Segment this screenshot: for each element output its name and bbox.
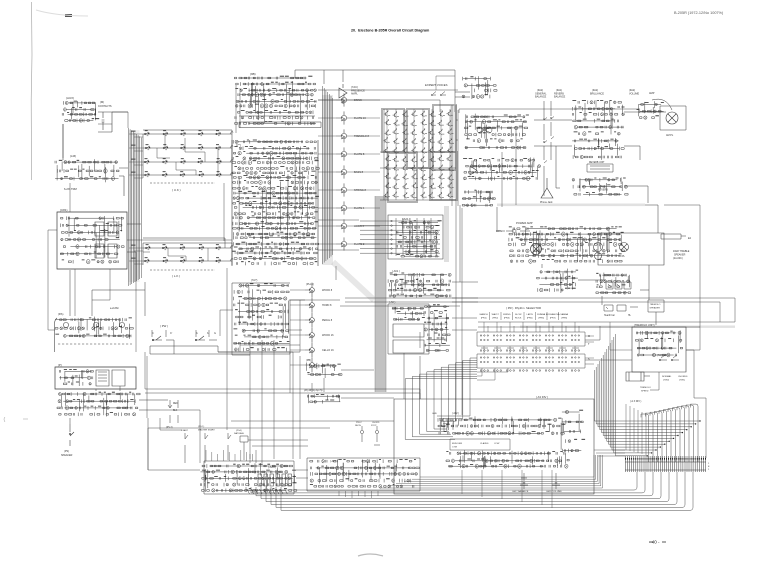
- svg-text:REVERB: REVERB: [598, 189, 608, 192]
- svg-text:(TW2): (TW2): [663, 380, 669, 382]
- drops below A2 cluster: [339, 491, 378, 498]
- svg-text:SWING: SWING: [503, 314, 511, 316]
- svg-text:( A01 ): ( A01 ): [392, 269, 400, 273]
- preamp triangle: [470, 166, 477, 175]
- pedal keyer block (A6): [234, 284, 290, 352]
- svg-text:WALTZ: WALTZ: [492, 313, 500, 316]
- svg-text:(LM): (LM): [70, 154, 76, 158]
- reverb recovery block (9A1): [572, 177, 628, 196]
- power transistor circle 2: [594, 243, 603, 260]
- rhythm generator (A24): [200, 463, 296, 492]
- lower keyboard zigzag wires: [143, 248, 208, 261]
- svg-text:B-205R (1972-12/No 1007%): B-205R (1972-12/No 1007%): [674, 11, 724, 15]
- svg-text:CYM: CYM: [452, 447, 457, 449]
- reverb unit box: [587, 164, 613, 172]
- wire left bundle down: [63, 124, 70, 212]
- shaded bus from keyer matrix down to A01: [375, 196, 386, 392]
- lower keyboard contact rows (L.K): [143, 245, 233, 263]
- A0 block box: [388, 304, 429, 354]
- main speaker: [666, 112, 678, 124]
- 9B left verticals: [236, 85, 240, 133]
- svg-text:(PB): (PB): [306, 359, 311, 362]
- wires top right to selector area: [664, 205, 700, 322]
- svg-text:AMP: AMP: [649, 92, 655, 95]
- balance pots chain: [543, 101, 554, 196]
- A21 matrix cells: [396, 220, 439, 258]
- cascade lower left exits: [380, 455, 603, 488]
- main treble speaker box: [598, 233, 664, 265]
- chord selector stop switch: [374, 426, 380, 445]
- wires PSU: [70, 386, 168, 424]
- svg-text:NORMAL: NORMAL: [662, 375, 672, 378]
- shaded diagonal bus link: [333, 262, 374, 300]
- svg-text:(PS 1): (PS 1): [198, 426, 204, 428]
- long wires left bottom web: [145, 352, 420, 459]
- svg-text:BRILLIANCE: BRILLIANCE: [590, 93, 604, 96]
- svg-text:NEON: NEON: [355, 425, 361, 427]
- keyboard row left tag labels: [131, 131, 136, 259]
- svg-text:CLAVES: CLAVES: [480, 442, 489, 445]
- keyer matrix gray outline 4: [388, 153, 417, 202]
- capacitor C101: [102, 112, 105, 130]
- svg-text:PEDAL 8: PEDAL 8: [322, 319, 333, 322]
- console section border lower left: [147, 356, 394, 470]
- dashed line under U.K rows: [150, 182, 215, 184]
- A0 dense right part: [424, 306, 450, 352]
- svg-text:(PS4): (PS4): [236, 430, 242, 432]
- svg-text:(7A?): (7A?): [251, 278, 257, 282]
- rhythm unit row 1 (A02): [438, 416, 564, 435]
- svg-text:(P): (P): [58, 363, 62, 367]
- wire keyer matrix to 9A block: [456, 120, 458, 140]
- drops from rhythm rows to bus: [462, 470, 552, 508]
- svg-text:G: G: [214, 332, 216, 335]
- svg-text:( L.K ): ( L.K ): [172, 274, 180, 278]
- vertical wires below 9A: [452, 105, 516, 207]
- wire 9B to 9A: [318, 90, 458, 112]
- svg-text:20. Electone B-205R Overall C: 20. Electone B-205R Overall Circuit Diag…: [351, 29, 430, 33]
- center bus bundle: [323, 86, 333, 264]
- svg-text:(9B): (9B): [250, 72, 256, 76]
- svg-text:AM PL: AM PL: [666, 134, 674, 137]
- keyer column connecting wires: [318, 100, 380, 244]
- keyer matrix gray outline 1: [382, 109, 404, 152]
- svg-text:(7*): (7*): [236, 143, 241, 147]
- staple mark top left: [65, 14, 72, 17]
- svg-text:NATURAL: NATURAL: [234, 432, 245, 435]
- staircase bundle selector to A3 DIV box: [405, 358, 477, 439]
- wire top aux long run: [112, 112, 128, 128]
- A24 resistor array: [258, 474, 291, 486]
- svg-text:SPEAKER: SPEAKER: [61, 454, 73, 457]
- svg-text:MASTER START: MASTER START: [198, 429, 215, 432]
- top border wire: [295, 70, 470, 112]
- svg-text:MARCH: MARCH: [480, 313, 488, 316]
- PH-C feed wires from A6: [290, 290, 305, 365]
- svg-text:ROCK: ROCK: [515, 318, 522, 320]
- long horizontal wires mid page: [290, 298, 478, 306]
- selector bank 2: [477, 354, 585, 371]
- tremolo switches (TW): [659, 355, 679, 361]
- svg-text:HORN 8: HORN 8: [322, 304, 332, 307]
- A21 matrix box: [388, 215, 443, 259]
- keyer matrix gray outline 5: [430, 152, 457, 200]
- svg-text:BALANCE: BALANCE: [535, 96, 547, 99]
- cascade lower horizontal feeders: [594, 450, 625, 456]
- svg-text:(M): (M): [100, 100, 104, 104]
- wire tremolo unit left side: [610, 322, 632, 350]
- svg-text:AMPL: AMPL: [351, 93, 358, 96]
- vibrato switches (PW): [152, 336, 217, 341]
- svg-text:(PR8): (PR8): [561, 318, 567, 320]
- small block right: [462, 190, 495, 206]
- wires above banks from left: [452, 298, 735, 322]
- wires right column down from tremolo: [650, 350, 706, 458]
- block below 9A: [464, 157, 541, 181]
- wires A6 down to bottom row: [250, 340, 274, 463]
- drops into A24 from switches: [206, 450, 252, 461]
- svg-text:VOLUME: VOLUME: [629, 93, 640, 96]
- small parts left of cascade: [561, 410, 583, 460]
- balance pot GM: [520, 473, 528, 489]
- upper keyboard bus wires: [143, 130, 232, 179]
- svg-text:PW-C: PW-C: [356, 422, 362, 424]
- svg-text:SPEED: SPEED: [641, 391, 649, 393]
- svg-text:a-2n/8kr: a-2n/8kr: [110, 307, 119, 310]
- wires 9A outputs: [534, 120, 648, 203]
- svg-text:( A2? ): ( A2? ): [330, 459, 338, 463]
- svg-text:GM-? BALANCE: GM-? BALANCE: [512, 490, 529, 493]
- long wire keyboard rows to voicing block: [224, 150, 232, 241]
- wire from LK down to PA: [70, 270, 145, 316]
- wires power amp: [497, 205, 658, 280]
- svg-text:COW: COW: [494, 443, 500, 445]
- upper keyboard zigzag inter-row wires: [157, 134, 218, 175]
- svg-text:CHORD: CHORD: [372, 422, 380, 424]
- wire amp to speaker: [624, 99, 672, 112]
- page fold mark lower left: [4, 417, 28, 422]
- tone control block (9A2): [573, 101, 625, 136]
- svg-text:SAMBA: SAMBA: [560, 313, 568, 316]
- svg-text:( A21 ): ( A21 ): [402, 217, 410, 221]
- power amp input parts: [506, 229, 526, 233]
- wire LM to bus: [119, 168, 128, 196]
- page fold line left edge: [30, 2, 33, 180]
- section border left of A6: [226, 268, 228, 430]
- svg-text:GND: GND: [432, 413, 437, 415]
- svg-text:( A 3 DIV ): ( A 3 DIV ): [630, 400, 642, 403]
- wires A24 to A2 block: [296, 470, 308, 478]
- svg-text:RUMBA: RUMBA: [537, 313, 545, 316]
- svg-text:(PH-C): (PH-C): [306, 282, 314, 286]
- lower keyboard bus wires: [143, 238, 232, 265]
- svg-text:Phone Jack: Phone Jack: [540, 201, 553, 204]
- A3 DIV outer box: [394, 399, 594, 494]
- svg-text:6-2% TRM: 6-2% TRM: [64, 187, 78, 191]
- svg-text:CELLO 16: CELLO 16: [322, 349, 334, 352]
- A21 terminal column: [391, 220, 393, 254]
- wire C81 to keyboards bus: [127, 224, 141, 282]
- svg-text:( U.K ): ( U.K ): [172, 188, 181, 192]
- svg-text:REVERB UNIT: REVERB UNIT: [589, 162, 605, 164]
- power transistor circle 1: [531, 244, 542, 255]
- dashed line under PA: [58, 343, 132, 345]
- svg-text:(PR1): (PR1): [481, 318, 487, 320]
- volume pot GM-D: [552, 473, 560, 489]
- 9B bottom bus bar: [239, 116, 321, 128]
- wires from C81 area down to PA: [75, 269, 110, 316]
- aux input block (AUX): [62, 101, 96, 122]
- power rectifier block: [57, 392, 140, 416]
- svg-text:BALANCE: BALANCE: [554, 96, 566, 99]
- svg-text:START: START: [181, 429, 189, 432]
- shaded bus right of block 9A: [450, 104, 455, 198]
- wire power amp to tremolo: [602, 265, 656, 325]
- main voicing block (7): [232, 140, 319, 265]
- small input block right top: [462, 76, 497, 99]
- svg-text:EXPERT VOICES: EXPERT VOICES: [425, 83, 448, 87]
- power supply arrows RED BLK: [168, 400, 178, 423]
- keyer matrix wires: [380, 105, 456, 200]
- bottom rhythm blocks row (left of A3): [310, 459, 420, 488]
- speaker bar E2: [661, 234, 686, 239]
- power transformer box (P): [55, 367, 136, 389]
- svg-text:(PA): (PA): [58, 312, 63, 316]
- power supply box C81: [57, 212, 127, 269]
- svg-text:(PR7): (PR7): [550, 318, 556, 320]
- pedal voice column (PH-C): [305, 283, 314, 373]
- pedal bus row (PB): [306, 363, 342, 379]
- wires from banks bottom to staircase: [477, 368, 508, 380]
- svg-text:TREMOLO: TREMOLO: [650, 304, 661, 306]
- svg-text:(PR3): (PR3): [504, 318, 510, 320]
- shaded bus above rhythm selector: [520, 326, 735, 328]
- tremolo unit box: [632, 327, 686, 372]
- rhythm unit row 2 (A02): [446, 450, 568, 469]
- svg-text:TREMOLO: TREMOLO: [640, 387, 651, 389]
- svg-text:( A24 ): ( A24 ): [268, 465, 276, 469]
- A0 long resistor packs: [393, 324, 424, 353]
- cascade junction dots: [647, 420, 701, 456]
- svg-text:(C81): (C81): [60, 208, 68, 212]
- svg-text:AM PL: AM PL: [618, 255, 626, 258]
- shaded bus behind center keyer column: [322, 95, 333, 265]
- svg-text:POWER AMP: POWER AMP: [516, 221, 533, 225]
- keyer matrix gray outline 2: [407, 109, 429, 168]
- connector comb: [625, 456, 706, 472]
- svg-text:(PR5): (PR5): [527, 318, 533, 320]
- svg-text:(AUX): (AUX): [66, 96, 74, 100]
- svg-text:(2A-60C): (2A-60C): [673, 257, 683, 260]
- svg-text:CHORUS: CHORUS: [678, 376, 688, 378]
- 9A crossed transistor pair: [477, 127, 492, 133]
- shaded horizontal bus to power amp: [497, 204, 645, 207]
- phone jack triangle: [541, 178, 553, 198]
- wires start switches down: [185, 442, 244, 463]
- A24 border box: [204, 461, 294, 494]
- A01 block: [388, 273, 451, 298]
- transformer windings: [96, 370, 125, 386]
- A6 border: [232, 283, 290, 355]
- presence amp triangle (7AC): [339, 84, 347, 104]
- shaded bus left of keyboard rows: [129, 130, 140, 282]
- cascade wire bundle turning right: [595, 334, 701, 456]
- wire pedal blocks to A5: [312, 378, 324, 392]
- power amp lower block: [537, 269, 578, 293]
- svg-text:C: C: [152, 332, 154, 335]
- 9A long top wire: [459, 100, 640, 113]
- A2 border box: [307, 458, 420, 491]
- reverb driver block (9A1): [572, 138, 624, 160]
- W-C connector cluster: [596, 273, 631, 295]
- svg-text:BOSSANOVA: BOSSANOVA: [546, 313, 560, 316]
- preamp block (LM): [55, 159, 119, 182]
- svg-text:(7AC): (7AC): [351, 85, 358, 89]
- wire PW to A6: [220, 300, 300, 352]
- wire bundle to upper keyboard: [129, 128, 142, 286]
- A21 matrix horizontal feed lines: [360, 218, 440, 256]
- driver speaker circle: [620, 243, 629, 252]
- wires PW area to center: [218, 345, 300, 352]
- svg-text:(TREMOLO UNIT): (TREMOLO UNIT): [634, 324, 655, 327]
- start switches: [185, 433, 248, 450]
- A5 row: [307, 394, 340, 403]
- svg-text:(A5) Rh Np Kp Hp: (A5) Rh Np Kp Hp: [304, 389, 323, 392]
- selector bank 1: [477, 332, 585, 351]
- main amp block: [639, 101, 664, 119]
- faint crease top left: [36, 10, 88, 16]
- svg-text:( A3 DIV ): ( A3 DIV ): [536, 395, 548, 399]
- comb terminal ticks: [625, 458, 706, 460]
- cascade risers with rounded caps: [641, 404, 698, 462]
- svg-text:( PR ) Rhythm SELECTOR: ( PR ) Rhythm SELECTOR: [506, 306, 541, 310]
- inner box labels row: [450, 439, 510, 450]
- svg-text:(PR6): (PR6): [538, 318, 544, 320]
- long wire left blocks to center: [98, 124, 232, 352]
- svg-text:MUS DER: MUS DER: [452, 443, 463, 445]
- dashed line under L.K rows: [150, 269, 215, 271]
- vibrato oscillator row (PA): [55, 317, 133, 339]
- wire start switches to A24 region: [250, 450, 256, 463]
- A24 diagonal taps: [247, 489, 287, 494]
- cascade vertical taps mid: [626, 404, 646, 455]
- svg-text:Hearth bar: Hearth bar: [604, 314, 615, 317]
- svg-text:WOOD 8: WOOD 8: [322, 289, 333, 292]
- electrolytic capacitors in C81: [95, 222, 117, 258]
- keyer matrix transistor grid: [383, 110, 454, 198]
- svg-text:M: M: [588, 335, 590, 338]
- hearth bar chain: [604, 305, 638, 311]
- horizontal bus from cascade to bottom blocks: [246, 472, 693, 510]
- wire bundle bank to cascade link: [585, 336, 594, 364]
- tone generator block (9B): [234, 77, 316, 126]
- long wire far left to bottom: [48, 230, 57, 330]
- svg-text:SPEAKER: SPEAKER: [650, 307, 661, 310]
- svg-text:SLOW: SLOW: [515, 314, 522, 316]
- selector wires above banks: [478, 322, 735, 327]
- voicing block border: [232, 140, 318, 266]
- speaker switch (PS): [69, 424, 74, 446]
- upper keyboard contact rows (U.K): [143, 131, 233, 177]
- wire A6 block links: [289, 300, 394, 398]
- svg-text:(TW): (TW): [657, 355, 662, 357]
- bundle stubs into keyboard rows: [129, 134, 143, 264]
- tremolo motor: [626, 372, 650, 381]
- expert voices switch parts: [431, 92, 446, 96]
- PW-C neon lamp: [360, 426, 363, 442]
- long wires center to selector: [452, 205, 478, 330]
- tremolo speaker label box: [648, 300, 664, 312]
- svg-text:LATIN: LATIN: [527, 313, 533, 316]
- svg-text:BLK: BLK: [173, 410, 178, 412]
- A0 upper cells: [392, 307, 424, 321]
- wires banks to tremolo: [585, 322, 700, 360]
- PA transistor circles: [63, 322, 124, 327]
- keyer transistor column: [336, 93, 347, 250]
- long vertical wire right of A21: [456, 200, 462, 415]
- svg-text:CONTACTS: CONTACTS: [98, 105, 112, 108]
- svg-text:STOP: STOP: [371, 425, 377, 427]
- svg-text:WOOD 16: WOOD 16: [322, 334, 334, 337]
- shaded bus right of A21: [444, 206, 449, 262]
- PW wires: [150, 300, 300, 354]
- wire aux to LM block: [63, 112, 128, 160]
- svg-text:( PW ): ( PW ): [160, 324, 168, 328]
- svg-text:RED: RED: [173, 403, 178, 405]
- preamp block (9A): [465, 114, 528, 150]
- svg-text:(PS): (PS): [64, 450, 69, 453]
- bank vertical feeds: [484, 322, 579, 354]
- wire voicing to A21: [318, 220, 359, 280]
- wires A0 to bottom row: [404, 332, 420, 399]
- main speaker box: [660, 106, 686, 130]
- power amp main block: [508, 227, 624, 263]
- PA left border arc: [55, 318, 58, 352]
- wires bottom left to A24: [148, 410, 200, 470]
- scanner smudge bottom center: [358, 554, 383, 556]
- svg-text:(PR2): (PR2): [492, 318, 498, 320]
- svg-text:(TW1): (TW1): [679, 380, 685, 382]
- wires start area horizontal: [160, 418, 308, 446]
- keyer matrix column drops: [387, 109, 450, 200]
- connector boxes W-4: [606, 282, 631, 289]
- keyer matrix gray outline 3: [433, 105, 456, 170]
